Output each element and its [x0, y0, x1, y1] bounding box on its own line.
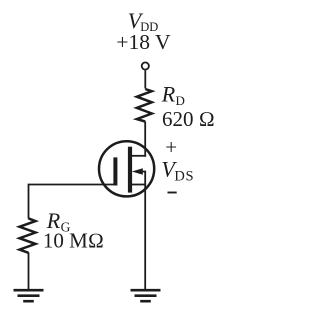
svg-text:VDS: VDS — [161, 157, 194, 185]
Q1 drain lead — [144, 122, 146, 157]
Q1 body circle — [99, 141, 154, 196]
ground (RG) — [14, 290, 44, 301]
label minus (VDS polarity) — [168, 192, 177, 194]
transistor Q1 (n-channel D-MOSFET) — [99, 122, 154, 197]
terminal VDD — [142, 62, 149, 69]
wire RG to ground — [28, 253, 30, 290]
Q1 channel bar — [128, 147, 132, 193]
wire gate to RG — [29, 185, 117, 219]
svg-text:10 MΩ: 10 MΩ — [43, 229, 104, 253]
ground (source) — [131, 290, 161, 301]
svg-text:+: + — [165, 135, 177, 159]
svg-text:+18 V: +18 V — [116, 30, 171, 54]
svg-text:620 Ω: 620 Ω — [162, 107, 215, 131]
Q1 drain tap — [132, 155, 147, 157]
Q1 substrate-source tie — [144, 172, 146, 185]
Q1 source tap — [132, 184, 147, 186]
Q1 gate bar — [113, 157, 117, 185]
wire source to ground — [144, 185, 146, 290]
wire VDD terminal to RD — [144, 71, 146, 89]
Q1 substrate arrow — [136, 171, 146, 173]
resistor RG — [20, 218, 36, 252]
resistor RD — [137, 89, 152, 122]
svg-text:RD: RD — [161, 82, 185, 109]
